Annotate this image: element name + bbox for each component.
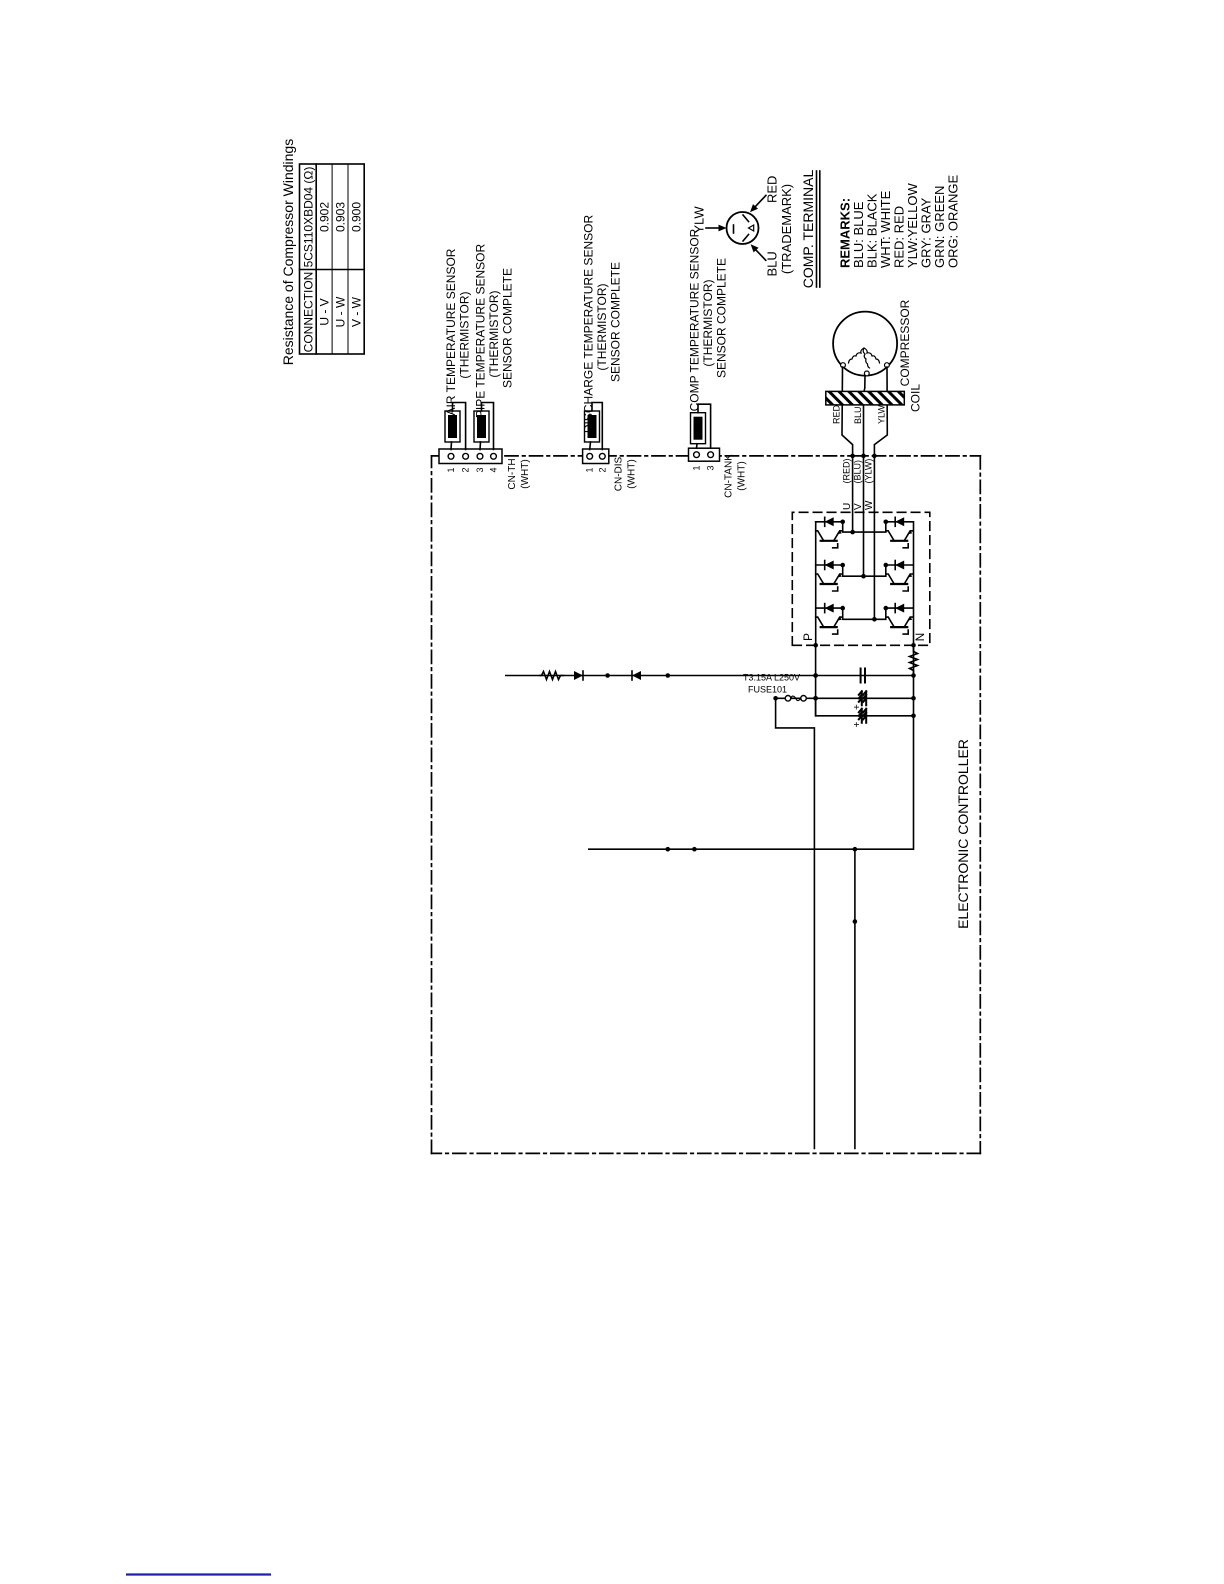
- svg-text:5CS110XBD04 (Ω): 5CS110XBD04 (Ω): [302, 167, 316, 268]
- svg-text:RED: RED: [765, 176, 780, 203]
- svg-text:V - W: V - W: [349, 296, 363, 327]
- svg-text:FUSE101: FUSE101: [748, 685, 787, 695]
- DC row C (second electrolytic): [816, 698, 914, 716]
- svg-text:(TRADEMARK): (TRADEMARK): [779, 184, 794, 274]
- P dot on box edge: [813, 643, 818, 648]
- svg-text:CN-DIS: CN-DIS: [614, 456, 625, 491]
- wire RED compressor: [842, 367, 853, 456]
- svg-text:(BLU): (BLU): [853, 460, 863, 484]
- N return line (DC minus bus): [589, 676, 914, 850]
- IGBT U upper: [816, 517, 843, 548]
- compressor Y windings: [849, 348, 880, 368]
- COIL hatched bar (compressor): [826, 391, 905, 405]
- svg-text:COIL: COIL: [909, 384, 923, 412]
- svg-text:SENSOR COMPLETE: SENSOR COMPLETE: [609, 262, 623, 382]
- svg-text:U: U: [842, 503, 853, 510]
- svg-text:4: 4: [489, 468, 499, 473]
- N rail resistor outside box: [913, 645, 915, 675]
- svg-text:1: 1: [692, 466, 702, 471]
- IGBT V upper: [816, 561, 843, 592]
- electronic controller dash-dot boundary box: [432, 456, 981, 1154]
- svg-text:2: 2: [597, 468, 607, 473]
- svg-text:(YLW): (YLW): [863, 459, 873, 484]
- svg-text:PIPE TEMPERATURE SENSOR: PIPE TEMPERATURE SENSOR: [474, 244, 488, 419]
- wire YLW compressor: [874, 367, 887, 456]
- IGBT V lower: [886, 561, 913, 592]
- wire BLU compressor: [864, 376, 866, 456]
- wire (RED)(BLU)(YLW) into controller: [852, 456, 854, 532]
- svg-text:U - W: U - W: [334, 296, 348, 327]
- svg-text:Resistance of Compressor Windi: Resistance of Compressor Windings: [280, 139, 296, 365]
- svg-text:CN-TH: CN-TH: [507, 458, 518, 489]
- svg-text:3: 3: [475, 468, 485, 473]
- svg-text:2: 2: [461, 468, 471, 473]
- svg-text:ELECTRONIC CONTROLLER: ELECTRONIC CONTROLLER: [955, 739, 971, 929]
- svg-text:1: 1: [446, 468, 456, 473]
- svg-text:DISCHARGE TEMPERATURE SENSOR: DISCHARGE TEMPERATURE SENSOR: [582, 215, 596, 434]
- svg-text:(THERMISTOR): (THERMISTOR): [487, 290, 501, 377]
- connector CN-TH: [439, 449, 502, 464]
- N rail: [913, 522, 915, 645]
- svg-text:0.902: 0.902: [318, 202, 332, 232]
- svg-text:COMP. TERMINAL: COMP. TERMINAL: [800, 170, 816, 289]
- connector CN-TANK: [689, 448, 720, 461]
- svg-text:AIR TEMPERATURE SENSOR: AIR TEMPERATURE SENSOR: [444, 248, 458, 415]
- svg-text:COMPRESSOR: COMPRESSOR: [898, 299, 912, 386]
- terminal tick RED (lower right): [743, 215, 749, 222]
- svg-text:RED: RED: [832, 404, 842, 424]
- svg-text:W: W: [864, 500, 875, 510]
- svg-text:YLW: YLW: [877, 405, 887, 424]
- svg-text:CN-TANK: CN-TANK: [724, 454, 735, 498]
- svg-text:CONNECTION: CONNECTION: [302, 272, 316, 353]
- comp terminal circle: [727, 212, 759, 244]
- svg-text:U - V: U - V: [318, 298, 332, 325]
- node dots on boundary: [850, 454, 855, 459]
- svg-text:BLU: BLU: [765, 251, 780, 276]
- svg-text:3: 3: [706, 466, 716, 471]
- fan supply wire from row B: [776, 698, 815, 1148]
- IGBT U lower: [886, 517, 913, 548]
- DC row A (links P to N via cap): [506, 675, 914, 677]
- svg-text:BLU: BLU: [853, 406, 863, 424]
- V phase stub: [843, 565, 886, 576]
- P rail extension to row C: [815, 645, 817, 716]
- svg-text:(WHT): (WHT): [520, 459, 531, 488]
- terminal tick YLW (top): [733, 225, 735, 233]
- table: resistance of compressor windings: [300, 164, 365, 354]
- terminal tick BLU (lower left): [743, 235, 749, 242]
- svg-text:SENSOR COMPLETE: SENSOR COMPLETE: [715, 258, 729, 378]
- thermistor comp temp sensor: [691, 413, 706, 444]
- connector CN-DIS: [583, 449, 609, 464]
- svg-text:(THERMISTOR): (THERMISTOR): [595, 283, 609, 370]
- svg-text:SENSOR COMPLETE: SENSOR COMPLETE: [501, 268, 515, 388]
- svg-text:(WHT): (WHT): [737, 461, 748, 490]
- compressor circle: [833, 312, 897, 376]
- fan pin4 wire from N bus: [854, 849, 856, 1148]
- IGBT W upper: [816, 604, 843, 635]
- W phase stub: [843, 608, 886, 619]
- U phase stub: [843, 522, 886, 532]
- svg-text:(THERMISTOR): (THERMISTOR): [458, 291, 472, 378]
- svg-text:COMP TEMPERATURE SENSOR: COMP TEMPERATURE SENSOR: [688, 228, 702, 411]
- svg-text:+: +: [852, 722, 863, 728]
- IGBT W lower: [886, 604, 913, 635]
- svg-text:0.903: 0.903: [334, 202, 348, 232]
- svg-text:1: 1: [585, 468, 595, 473]
- svg-text:N: N: [913, 633, 927, 642]
- DC row B (fuse101 + electrolytic): [776, 697, 914, 699]
- svg-text:(THERMISTOR): (THERMISTOR): [701, 279, 715, 366]
- svg-text:(WHT): (WHT): [627, 459, 638, 488]
- svg-text:(RED): (RED): [842, 459, 852, 484]
- thermistor discharge temp sensor: [585, 411, 600, 442]
- footer line: [126, 1573, 271, 1575]
- thermistor pipe temp sensor: [474, 411, 489, 442]
- thermistor air temp sensor: [445, 411, 460, 442]
- N dot on box edge: [911, 643, 916, 648]
- svg-text:ORG: ORANGE: ORG: ORANGE: [946, 174, 961, 268]
- inverter six-pack dashed box: [792, 512, 930, 645]
- trademark triangle: [749, 225, 754, 231]
- P rail: [815, 522, 817, 645]
- svg-text:0.900: 0.900: [349, 202, 363, 232]
- svg-text:T3.15A L250V: T3.15A L250V: [743, 673, 800, 683]
- svg-text:V: V: [853, 503, 864, 510]
- svg-text:P: P: [801, 633, 815, 641]
